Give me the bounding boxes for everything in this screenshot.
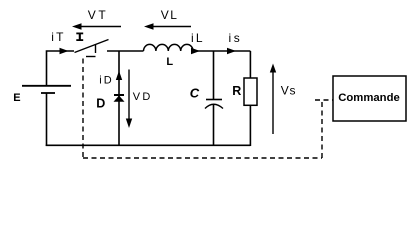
wire from top rail down to resistor R	[249, 51, 251, 78]
capacitor C branch upper wire	[213, 51, 215, 99]
wire from inductor to R branch	[193, 50, 250, 52]
arrow VT (voltage across switch)	[72, 23, 121, 29]
dashed control line from switch down	[82, 59, 84, 159]
current arrow iD	[116, 71, 122, 80]
arrow Vs (output voltage)	[270, 64, 276, 135]
svg-text:Commande: Commande	[338, 92, 400, 104]
diode D branch wire	[118, 51, 120, 146]
switch I lower contact mark	[86, 56, 96, 58]
diode D triangle	[114, 96, 125, 102]
svg-text:iT: iT	[51, 30, 65, 44]
arrow VL (voltage across inductor)	[144, 23, 191, 29]
resistor R body	[244, 78, 257, 105]
wire left rail lower	[46, 93, 48, 146]
current arrow iT	[60, 48, 69, 54]
voltage source E battery long plate	[22, 85, 71, 87]
capacitor C top plate	[206, 99, 222, 101]
svg-text:iD: iD	[99, 75, 113, 87]
arrow VD (voltage across diode)	[126, 70, 132, 129]
dashed control line up to Commande	[321, 100, 323, 158]
wire from switch to inductor	[107, 50, 144, 52]
current arrow iL	[191, 48, 200, 54]
svg-text:R: R	[232, 84, 241, 98]
svg-text:Vs: Vs	[281, 84, 297, 98]
svg-text:VD: VD	[133, 91, 153, 103]
svg-text:iL: iL	[191, 31, 205, 45]
diode D cathode bar	[114, 94, 124, 96]
wire from resistor R to bottom rail	[249, 105, 251, 146]
inductor L coil	[144, 44, 194, 51]
voltage source E battery short plate	[41, 92, 55, 94]
capacitor C branch lower wire	[213, 105, 215, 147]
svg-text:E: E	[13, 92, 20, 104]
wire top-left from source E to switch	[47, 51, 75, 86]
svg-text:L: L	[166, 56, 173, 68]
switch I lever	[75, 40, 109, 53]
svg-text:VL: VL	[161, 8, 178, 22]
svg-text:is: is	[229, 31, 243, 45]
dashed control line bottom run	[83, 157, 322, 159]
svg-text:D: D	[96, 96, 105, 110]
svg-text:C: C	[190, 86, 200, 101]
switch I contact tick	[95, 44, 97, 53]
capacitor C curved plate	[205, 104, 223, 108]
svg-text:VT: VT	[88, 8, 109, 22]
label I (switch)	[76, 33, 83, 40]
current arrow is	[227, 48, 236, 54]
dashed control line into Commande box	[315, 99, 333, 101]
Commande box	[333, 76, 406, 121]
wire bottom rail	[46, 144, 251, 146]
